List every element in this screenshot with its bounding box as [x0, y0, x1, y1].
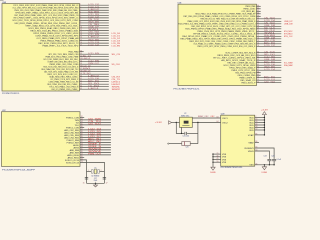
junction crystal ground tap [95, 183, 96, 184]
oscillator GND stub down [181, 127, 183, 133]
U2B pin row 20 (pin 82) wire+labels [213, 56, 281, 59]
wire C25 to right vertical [187, 132, 198, 134]
U2C pin row 6 (pin 17) wire+labels [64, 129, 111, 132]
svg-text:VBAT: VBAT [248, 141, 254, 144]
svg-text:PMA3_VREF+_IC2_T3CK_T3CK_RPD: PMA3_VREF+_IC2_T3CK_T3CK_RPD [42, 45, 78, 48]
svg-text:PIC32MX795F512L: PIC32MX795F512L [221, 167, 243, 169]
U2B pin row 17 (pin 76) wire+labels [197, 45, 281, 48]
ground symbol DGND under VSS bus [211, 167, 215, 170]
wire C26 to right vertical [190, 143, 198, 145]
svg-text:SD_CS: SD_CS [112, 54, 121, 56]
U2B pin row 5 (pin 64) wire+labels [183, 15, 260, 18]
svg-text:OSC2: OSC2 [222, 122, 229, 124]
wire oscillator OUT to U2E OSC1 [192, 117, 220, 119]
U2A pin row 13 (pin 13) wire+labels [35, 34, 120, 37]
U2C pin row 11 (pin 22) wire+labels [67, 140, 111, 144]
svg-text:45: 45 [255, 163, 257, 165]
U2B pin row 15 (pin 74) wire+labels [189, 40, 281, 43]
U2C pin row 2 (pin 13) wire+labels [75, 119, 111, 122]
svg-text:17: 17 [106, 182, 108, 184]
svg-text:+3.3V: +3.3V [261, 109, 269, 111]
U2B pin row 25 (pin 87) wire+labels [231, 69, 281, 72]
U2B pin row 2 (pin 61) wire+labels [243, 7, 260, 10]
svg-text:72: 72 [255, 129, 257, 131]
IC U2B body [178, 4, 257, 85]
U2C pin row 4 (pin 15) wire+labels [75, 124, 111, 127]
svg-text:VSS: VSS [222, 157, 227, 159]
U2A pin row 24 (pin 36) wire+labels [43, 65, 108, 68]
U2A pin row 10 (pin 10) wire+labels [28, 27, 108, 30]
U2B pin row 4 (pin 63) wire+labels [195, 12, 260, 15]
svg-text:55: 55 [217, 161, 219, 163]
U2A pin row 6 (pin 6) wire+labels [13, 17, 108, 20]
U2A pin row 20 (pin 32) wire+labels [45, 55, 108, 58]
U2B pin row 6 (pin 65) wire+labels [200, 17, 281, 20]
U2A pin row 17 (pin 17) wire+labels [42, 44, 120, 47]
capacitor C28 inline right [103, 176, 106, 178]
capacitor C25 inline horizontal [184, 132, 186, 135]
U2A pin row 14 (pin 14) wire+labels [36, 37, 120, 40]
U2B pin row 30 (pin 92) wire+labels [241, 81, 281, 84]
svg-text:ETH_CLK: ETH_CLK [284, 36, 293, 38]
svg-text:C26: C26 [186, 146, 189, 148]
svg-text:2: 2 [101, 170, 102, 172]
U2A pin row 1 (pin 1) wire+labels [13, 4, 108, 7]
wire SOSCO to crystal left leg [80, 160, 87, 183]
svg-text:32.768kHz: 32.768kHz [91, 175, 99, 177]
U2B pin row 27 (pin 89) wire+labels [237, 74, 260, 77]
U2A pin row 16 (pin 16) wire+labels [38, 42, 120, 45]
wire crystal bottom rail [87, 182, 105, 184]
svg-text:92: 92 [257, 81, 259, 83]
U2A pin row 8 (pin 8) wire+labels [14, 22, 108, 25]
svg-text:C23: C23 [263, 156, 266, 158]
ground symbol DGND under cap rail [263, 165, 265, 167]
svg-text:LED1: LED1 [88, 88, 99, 90]
svg-text:PWM_OUT: PWM_OUT [88, 154, 102, 156]
U2B pin row 14 (pin 73) wire+labels [180, 37, 281, 40]
svg-text:17: 17 [80, 44, 82, 46]
U2A pin row 15 (pin 15) wire+labels [40, 39, 120, 42]
U2A pin row 22 (pin 34) wire+labels [47, 60, 108, 63]
U2A pin row 5 (pin 5) wire+labels [14, 14, 108, 17]
U2B pin row 9 (pin 68) wire+labels [191, 25, 281, 28]
U2C pin row 1 (pin 12) wire+labels [66, 116, 84, 119]
svg-text:VSS: VSS [222, 162, 227, 164]
U2A pin row 21 (pin 33) wire+labels [43, 58, 108, 61]
U2A pin row 29 (pin 41) wire+labels [50, 78, 121, 81]
svg-text:C25 104: C25 104 [183, 136, 190, 138]
svg-text:86: 86 [255, 141, 257, 143]
U2B pin row 7 (pin 66) wire+labels [187, 20, 293, 23]
capacitor C26 polarized on EN row [182, 142, 190, 146]
svg-text:SOSCI_RC13: SOSCI_RC13 [66, 162, 80, 164]
IC U2A body [2, 4, 80, 92]
svg-text:LCD_D2: LCD_D2 [264, 45, 275, 47]
svg-text:22pF: 22pF [94, 180, 98, 182]
svg-text:85: 85 [255, 134, 257, 136]
svg-text:VSS: VSS [249, 165, 254, 167]
sheet border fragment top-left [0, 0, 4, 2]
svg-text:0.1uF: 0.1uF [277, 159, 281, 161]
U2B pin row 21 (pin 83) wire+labels [221, 59, 281, 62]
U2C pin row 7 (pin 18) wire+labels [64, 131, 111, 134]
U2B pin row 19 (pin 81) wire+labels [217, 54, 281, 57]
svg-text:PIC32MX795F512L-80I/PF: PIC32MX795F512L-80I/PF [2, 170, 36, 172]
svg-text:25: 25 [217, 153, 219, 155]
wire bottom EN row [169, 143, 182, 145]
ground symbol below crystal [95, 183, 97, 185]
U2A pin row 12 (pin 12) wire+labels [33, 32, 120, 35]
U2A pin row 33 (pin 45) wire+labels [51, 88, 120, 91]
U2A pin row 18 (pin 30) wire+labels [68, 50, 83, 53]
svg-text:LCD_D4: LCD_D4 [264, 69, 275, 71]
U2B pin row 24 (pin 86) wire+labels [229, 66, 281, 69]
U2A pin row 9 (pin 9) wire+labels [25, 24, 108, 27]
svg-text:VDD: VDD [249, 130, 254, 132]
svg-text:USB_DM: USB_DM [284, 24, 293, 26]
svg-text:CN_TDI: CN_TDI [264, 81, 276, 83]
IC U2C body [2, 112, 81, 167]
svg-text:PIC32MX795F512L: PIC32MX795F512L [174, 89, 201, 91]
U2C pin row 16 (pin 27) wire+labels [67, 154, 111, 157]
svg-text:76: 76 [257, 45, 259, 47]
U2A pin row 30 (pin 42) wire+labels [48, 79, 120, 83]
svg-text:CN_TDO: CN_TDO [88, 124, 102, 126]
svg-text:DGND: DGND [210, 172, 216, 174]
U2C pin row 5 (pin 16) wire+labels [66, 126, 84, 129]
U2B pin row 1 (pin 60) wire+labels [245, 5, 260, 8]
wire oscillator EN to U2E CLKI [192, 122, 220, 124]
U2A pin row 19 (pin 31) wire+labels [48, 53, 121, 56]
U2C pin row 3 (pin 14) wire+labels [76, 121, 111, 124]
U2C pin row 17 (pin 28) wire+labels [68, 156, 85, 159]
U2A pin row 28 (pin 40) wire+labels [49, 75, 121, 78]
U2B pin row 23 (pin 85) wire+labels [223, 64, 292, 67]
svg-text:45: 45 [80, 88, 82, 90]
U2B pin row 13 (pin 72) wire+labels [182, 34, 293, 38]
svg-text:35: 35 [217, 155, 219, 157]
U2B pin row 18 (pin 80) wire+labels [225, 51, 281, 54]
U2B pin row 12 (pin 71) wire+labels [193, 32, 293, 35]
svg-text:C24: C24 [271, 156, 274, 158]
U2A pin row 3 (pin 3) wire+labels [14, 9, 108, 12]
U2B pin row 16 (pin 75) wire+labels [193, 41, 281, 45]
svg-text:VSS: VSS [222, 159, 227, 161]
U2C pin row 14 (pin 25) wire+labels [70, 149, 111, 152]
oscillator X2 body [180, 117, 193, 127]
U2A pin row 7 (pin 7) wire+labels [12, 19, 108, 22]
U2A pin row 31 (pin 43) wire+labels [47, 83, 120, 86]
U2C pin row 9 (pin 20) wire+labels [64, 136, 111, 139]
U2A pin row 32 (pin 44) wire+labels [49, 85, 120, 88]
U2C pin row 12 (pin 23) wire+labels [73, 144, 111, 147]
svg-text:15: 15 [83, 182, 85, 184]
svg-text:OSC: OSC [210, 116, 215, 118]
junction on VCC wire to decoupling loop [176, 122, 177, 123]
svg-text:VBUS: VBUS [248, 151, 254, 153]
svg-text:8MHZ_OSC: 8MHZ_OSC [198, 116, 209, 118]
sheet background [0, 0, 300, 188]
svg-text:54: 54 [255, 150, 257, 152]
svg-text:73: 73 [81, 161, 83, 163]
U2A pin row 26 (pin 38) wire+labels [44, 70, 108, 73]
wire VCC branch down to decoupling cap C25 [176, 123, 184, 134]
IC U2E body [221, 115, 255, 166]
svg-text:63: 63 [217, 117, 219, 119]
U2B pin row 11 (pin 70) wire+labels [197, 30, 293, 33]
U2B pin row 22 (pin 84) wire+labels [227, 60, 292, 64]
svg-text:+3.3V: +3.3V [155, 122, 163, 124]
svg-text:PIC32MX795F512L: PIC32MX795F512L [2, 93, 20, 95]
U2C pin row 13 (pin 24) wire+labels [74, 146, 111, 149]
U2B pin row 3 (pin 62) wire+labels [241, 10, 260, 13]
svg-text:X2: X2 [184, 113, 186, 115]
svg-text:SW2: SW2 [112, 89, 121, 91]
U2B pin row 28 (pin 90) wire+labels [239, 75, 281, 79]
wire +3.3V to oscillator VCC pin [172, 122, 180, 124]
U2C pin row 10 (pin 21) wire+labels [67, 138, 111, 142]
svg-text:VUSB3V3: VUSB3V3 [244, 148, 254, 150]
U2A pin row 25 (pin 37) wire+labels [41, 68, 108, 71]
U2C pin row 8 (pin 19) wire+labels [64, 134, 111, 137]
wire VSS bus vertical to ground [212, 154, 214, 167]
svg-text:VCAP: VCAP [248, 134, 254, 137]
svg-text:PMD1_U2TX_INT2_RPG7_PMD0_C1IND: PMD1_U2TX_INT2_RPG7_PMD0_C1IND_SCK2_RD0_… [197, 46, 255, 48]
U2A pin row 11 (pin 11) wire+labels [30, 29, 108, 32]
svg-text:VSS: VSS [222, 154, 227, 156]
svg-text:OSC1: OSC1 [222, 118, 229, 120]
U2A pin row 23 (pin 35) wire+labels [49, 63, 120, 66]
U2B pin row 29 (pin 91) wire+labels [240, 79, 281, 82]
svg-text:DGND: DGND [262, 172, 268, 174]
U2B pin row 26 (pin 88) wire+labels [235, 71, 260, 74]
U2A pin row 27 (pin 39) wire+labels [47, 73, 108, 76]
svg-text:45: 45 [217, 158, 219, 160]
U2C pin row 15 (pin 26) wire+labels [70, 151, 111, 154]
U2A pin row 2 (pin 2) wire+labels [12, 6, 108, 9]
wire cap bottom rail [255, 164, 274, 166]
svg-text:64: 64 [217, 121, 219, 123]
svg-text:LCD_EN: LCD_EN [112, 45, 121, 47]
U2B pin row 10 (pin 69) wire+labels [185, 27, 281, 30]
crystal Y1 body [87, 170, 92, 172]
svg-text:SDA_MEM: SDA_MEM [284, 64, 293, 67]
wire right vertical from CLKI wire down [197, 122, 198, 123]
svg-text:PMD1_SDO1_P: PMD1_SDO1_P [241, 83, 256, 85]
svg-text:C27: C27 [94, 178, 97, 180]
svg-text:SS2_IC1_PMWR_CN15_CVREF_: SS2_IC1_PMWR_CN15_CVREF_ [51, 89, 79, 91]
svg-text:SD_CLK: SD_CLK [112, 64, 121, 66]
U2B pin row 8 (pin 67) wire+labels [178, 22, 293, 25]
capacitor C27 inline left [85, 176, 88, 178]
wire VDD bus vertical [263, 115, 265, 135]
capacitor C24 [272, 158, 276, 160]
svg-text:LCD_D2: LCD_D2 [88, 44, 99, 46]
svg-text:55: 55 [255, 147, 257, 149]
capacitor C23 [267, 158, 271, 160]
wire SOSCI to crystal right leg [80, 162, 104, 183]
U2A pin row 4 (pin 4) wire+labels [15, 10, 108, 14]
